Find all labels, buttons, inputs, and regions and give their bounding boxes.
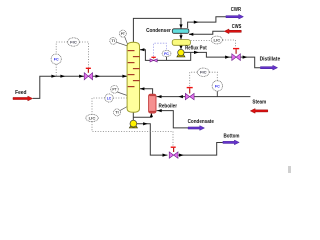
svg-text:Bottom: Bottom bbox=[224, 133, 240, 139]
wire CWR condenser to arrow bbox=[188, 17, 226, 28]
signal LC-LIC-bottom-valve dotted bbox=[92, 98, 173, 146]
instrument LIC bottom bbox=[86, 114, 98, 121]
svg-text:CWR: CWR bbox=[231, 7, 242, 13]
tray 2 bbox=[133, 56, 140, 57]
column C1 bbox=[127, 42, 139, 112]
leader PT-bottom bbox=[117, 92, 127, 96]
stream arrow CWS bbox=[224, 24, 242, 34]
svg-text:Condenser: Condenser bbox=[146, 28, 171, 34]
svg-text:Reflux Pot: Reflux Pot bbox=[185, 46, 207, 52]
valve V2 (reflux) bbox=[150, 57, 157, 62]
wire column outlet tee to reboiler bottom bbox=[133, 114, 151, 118]
instrument FC right bbox=[212, 81, 222, 91]
wire valve to Distillate arrow bbox=[241, 57, 261, 68]
tray 7 bbox=[128, 86, 135, 87]
wire condensate from reboiler bbox=[157, 111, 188, 128]
svg-text:Feed: Feed bbox=[15, 90, 26, 96]
tap FC-reflux solid bbox=[166, 57, 168, 61]
svg-text:FIC: FIC bbox=[70, 40, 77, 44]
svg-text:LIC: LIC bbox=[214, 38, 221, 42]
svg-text:FC: FC bbox=[215, 84, 220, 88]
reflux pot vessel bbox=[172, 40, 190, 46]
svg-text:TI: TI bbox=[115, 111, 118, 115]
leader TI-top bbox=[116, 42, 127, 46]
signal FIC-left dotted bbox=[56, 42, 67, 54]
wire reflux line pump tee to column bbox=[140, 50, 191, 61]
pump P1 (reflux) bbox=[177, 49, 185, 57]
stream arrow Feed bbox=[13, 90, 33, 101]
wire condenser to reflux pot bbox=[180, 33, 182, 39]
svg-text:FC: FC bbox=[164, 52, 169, 56]
wire column bottom to pump2 bbox=[132, 112, 134, 120]
stream arrow Bottom bbox=[223, 133, 240, 144]
instrument TI bottom bbox=[114, 109, 121, 116]
wire feed to column bbox=[33, 76, 127, 98]
tray 4 bbox=[133, 68, 140, 69]
stream arrow Steam bbox=[250, 99, 267, 113]
condenser vessel bbox=[172, 29, 189, 34]
wire steam arrow to valve to reboiler bbox=[194, 96, 250, 98]
instrument PT top bbox=[119, 30, 126, 37]
leader PT-top bbox=[125, 37, 128, 45]
stream arrow Distillate bbox=[260, 57, 281, 70]
svg-text:FC: FC bbox=[54, 57, 59, 61]
svg-text:TI: TI bbox=[112, 39, 115, 43]
scrollbar fragment bottom right bbox=[288, 166, 291, 173]
signal FIC-right dotted bbox=[190, 72, 198, 87]
tray 5 bbox=[128, 74, 135, 75]
instrument FC reflux bbox=[162, 50, 171, 56]
instrument TI top bbox=[110, 38, 117, 45]
svg-text:Steam: Steam bbox=[252, 99, 266, 105]
wire column top to condenser bbox=[133, 18, 181, 42]
tray 1 bbox=[128, 50, 135, 51]
wire reboiler top vapor return to column bbox=[140, 89, 153, 95]
stream arrow CWR bbox=[226, 7, 244, 19]
tray 3 bbox=[128, 62, 135, 63]
svg-text:Condensate: Condensate bbox=[188, 119, 214, 125]
wire pump2 discharge to bottoms valve bbox=[137, 124, 168, 155]
signal LIC-top dotted bbox=[191, 39, 212, 41]
reboiler vessel bbox=[149, 94, 156, 113]
instrument FIC right bbox=[197, 68, 209, 76]
valve V1 (feed) bbox=[84, 68, 92, 80]
tap FC-right solid bbox=[216, 91, 218, 96]
svg-text:CWS: CWS bbox=[232, 24, 242, 30]
wire pump outlet / distillate line bbox=[184, 52, 232, 57]
valve V5 (bottoms) bbox=[169, 147, 178, 158]
instrument FIC left bbox=[68, 38, 80, 46]
svg-text:LC: LC bbox=[107, 96, 112, 100]
wire reflux pot to pump bbox=[180, 45, 182, 48]
wire CWS arrow to condenser bbox=[189, 31, 224, 34]
instrument LIC top right bbox=[211, 36, 222, 44]
svg-text:FIC: FIC bbox=[200, 71, 207, 75]
tray 6 bbox=[133, 80, 140, 81]
signal FC-left tap dotted bbox=[55, 64, 57, 76]
instrument LC bottom bbox=[105, 94, 113, 102]
signal FC-reflux blue dashed bbox=[154, 43, 167, 56]
svg-text:Distillate: Distillate bbox=[260, 57, 281, 63]
wire valve to Bottom arrow bbox=[178, 143, 223, 156]
leader TI-bottom bbox=[120, 107, 127, 111]
valve V3 (distillate) bbox=[232, 49, 241, 61]
instrument FC left bbox=[51, 54, 61, 64]
svg-text:LIC: LIC bbox=[89, 116, 96, 120]
instrument PT bottom bbox=[111, 86, 119, 94]
valve V4 (steam) bbox=[185, 88, 194, 100]
pump P2 (bottoms) bbox=[129, 120, 137, 128]
stream arrow Condensate bbox=[188, 119, 214, 130]
svg-text:Reboiler: Reboiler bbox=[159, 104, 178, 110]
